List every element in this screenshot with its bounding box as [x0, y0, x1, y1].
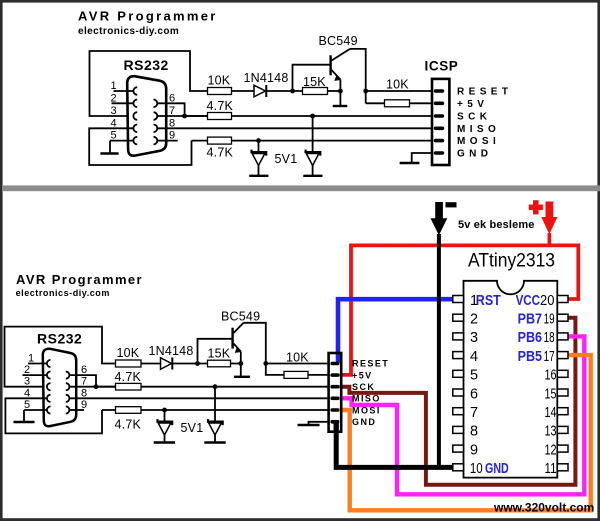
J3 pin 6 contact arc — [66, 372, 70, 379]
svg-text:7: 7 — [470, 405, 478, 421]
svg-text:17: 17 — [544, 349, 555, 365]
resistor R10 4.7K (MOSI bottom) — [116, 407, 142, 414]
svg-text:8: 8 — [81, 387, 87, 399]
U1 pin 20 stub — [557, 296, 568, 303]
J4 pin 3 pad — [330, 385, 339, 389]
J3 pin 7 contact arc — [66, 383, 70, 390]
IC U1 ATtiny2313 body — [464, 281, 558, 478]
svg-text:MOSI: MOSI — [352, 405, 381, 415]
svg-text:3: 3 — [24, 376, 30, 388]
svg-text:3: 3 — [470, 330, 478, 346]
svg-text:19: 19 — [544, 312, 555, 328]
supply red arrow (+) — [541, 202, 557, 248]
J1 pin 5 contact arc — [133, 137, 137, 145]
J2 pin 5 pad — [434, 139, 444, 143]
J4 pin 6 pad (GND tee) — [330, 420, 339, 433]
svg-text:BC549: BC549 — [319, 34, 358, 48]
svg-text:5: 5 — [111, 130, 117, 142]
wire red +5V feed — [340, 245, 579, 375]
J3 pin 1 contact arc — [47, 360, 51, 367]
J3 pin 3 contact arc — [47, 383, 51, 390]
ground at J1 pin 5 — [100, 141, 118, 154]
svg-text:MISO: MISO — [352, 394, 381, 404]
zener D5 5V1 — [154, 410, 175, 443]
svg-text:PB7: PB7 — [518, 312, 542, 328]
diode D4 1N4148 — [161, 358, 173, 370]
node emitter/R2 junction — [338, 89, 343, 94]
wire R3 to ICSP +5V — [410, 102, 432, 104]
J1 pin 7 line — [157, 115, 208, 117]
svg-text:11: 11 — [545, 461, 557, 477]
svg-text:4.7K: 4.7K — [115, 370, 142, 384]
svg-text:3: 3 — [111, 105, 117, 117]
svg-text:9: 9 — [470, 442, 478, 458]
U1 pin 6 stub — [453, 389, 464, 396]
U1 pin 15 stub — [557, 389, 568, 396]
svg-text:20: 20 — [540, 293, 554, 309]
J3 pin 2 line — [23, 374, 48, 376]
svg-text:AVR Programmer: AVR Programmer — [78, 9, 218, 24]
resistor R4 4.7K (SCK) — [208, 113, 232, 120]
svg-text:4.7K: 4.7K — [207, 146, 234, 160]
node B (collector/RESET junction) — [363, 89, 368, 94]
svg-text:2: 2 — [111, 92, 117, 104]
wire Q1 emitter down to ground — [339, 80, 341, 107]
svg-text:electronics-diy.com: electronics-diy.com — [16, 288, 110, 298]
diode D1 1N4148 — [254, 85, 266, 97]
J1 pin 2 line — [112, 102, 135, 104]
svg-text:+5V: +5V — [457, 99, 488, 110]
svg-text:5: 5 — [24, 399, 30, 411]
svg-text:1N4148: 1N4148 — [149, 344, 194, 358]
svg-text:15K: 15K — [303, 75, 326, 89]
svg-text:6: 6 — [169, 92, 175, 104]
svg-text:1N4148: 1N4148 — [244, 71, 289, 85]
svg-text:16: 16 — [545, 368, 557, 384]
svg-text:GND: GND — [352, 417, 376, 427]
wire: DB9 pin3 TxD loop (left, top, right down to 10K row) — [90, 51, 208, 116]
U1 pin 7 stub — [453, 408, 464, 415]
J3 pin 6 line + down to pin7 row — [69, 375, 96, 387]
J1 pin 9 line stub — [157, 140, 178, 142]
svg-text:5: 5 — [470, 368, 478, 384]
J3 pin 4 contact arc — [47, 395, 51, 402]
svg-text:10K: 10K — [286, 351, 309, 365]
J3 pin 7 line — [69, 386, 116, 388]
J1 pin 1 line — [114, 90, 135, 92]
J1 pin 1 contact arc — [133, 87, 137, 95]
node zener D5 tap on MOSI row — [162, 408, 167, 413]
wire Q2 emitter down to ground — [240, 352, 242, 377]
svg-text:4: 4 — [470, 349, 478, 365]
label minus sign — [446, 202, 457, 207]
J1 pin 2 contact arc — [133, 100, 137, 108]
J2 pin 3 pad — [434, 114, 444, 118]
zener D2 5V1 — [249, 141, 268, 176]
svg-text:VCC: VCC — [516, 293, 541, 309]
U1 pin 2 stub — [453, 314, 464, 321]
svg-text:GND: GND — [457, 149, 492, 160]
node pins 6-7 junction (bottom) — [94, 384, 99, 389]
svg-text:MISO: MISO — [457, 124, 500, 135]
connector J4 ICSP box (bottom) — [329, 353, 342, 432]
J3 pin 2 contact arc — [47, 372, 51, 379]
J4 pin 5 pad — [330, 408, 339, 412]
node pins 6-7 junction — [182, 114, 187, 119]
ground at Q2 emitter — [234, 376, 250, 378]
ground at Q1 emitter — [333, 105, 348, 107]
svg-text:PB6: PB6 — [518, 330, 542, 346]
wire node D down to R8 pull-up — [266, 364, 284, 375]
ground at J3 pin 5 — [14, 410, 35, 422]
J1 pin 7 contact arc — [154, 112, 158, 120]
connector J1 DB9 shell (top) — [127, 76, 166, 156]
svg-text:5V1: 5V1 — [275, 152, 298, 166]
U1 pin 17 stub — [557, 352, 568, 359]
wire D1 to node A — [266, 90, 302, 92]
svg-text:9: 9 — [169, 130, 175, 142]
svg-text:4: 4 — [24, 387, 30, 399]
J3 pin 8 contact arc — [66, 395, 70, 402]
J1 pin 5 line — [110, 140, 134, 142]
wire node B to ICSP RESET — [366, 90, 431, 92]
svg-text:electronics-diy.com: electronics-diy.com — [78, 26, 179, 37]
wire R8 to ICSP +5V — [308, 374, 328, 376]
svg-text:4.7K: 4.7K — [115, 418, 142, 432]
node A (diode/base junction) — [290, 89, 295, 94]
svg-text:8: 8 — [470, 424, 478, 440]
resistor R1 10K (top TxD) — [208, 88, 232, 95]
node zener D2 tap on MOSI row — [256, 138, 261, 143]
U1 pin 1 stub — [453, 296, 464, 303]
wire MOSI row from loop through R5 to ICSP — [192, 140, 432, 142]
J2 pin 4 pad — [434, 127, 444, 131]
svg-text:6: 6 — [81, 364, 87, 376]
svg-text:AVR Programmer: AVR Programmer — [16, 272, 143, 287]
svg-text:1: 1 — [111, 80, 117, 92]
svg-text:4: 4 — [111, 117, 117, 129]
resistor R5 4.7K (MOSI) — [208, 137, 232, 144]
wire black GND to pin10 — [336, 422, 453, 467]
resistor R8 10K (bottom pull-up) — [284, 371, 308, 378]
resistor R2 15K (base-emitter) — [303, 88, 328, 95]
U1 pin 13 stub — [557, 426, 568, 433]
svg-text:10K: 10K — [208, 74, 231, 88]
svg-text:www.320volt.com: www.320volt.com — [493, 501, 594, 515]
svg-text:+5V: +5V — [352, 370, 373, 380]
svg-text:SCK: SCK — [352, 382, 375, 392]
wire SCK row (bottom) — [96, 386, 328, 388]
J2 pin 2 pad — [434, 102, 444, 106]
U1 pin 16 stub — [557, 370, 568, 377]
J1 pin 8 contact arc — [154, 125, 158, 133]
svg-text:15: 15 — [545, 386, 557, 402]
connector J3 DB9 shell (bottom) — [43, 349, 76, 427]
svg-text:6: 6 — [470, 386, 478, 402]
zener D3 5V1 — [303, 116, 322, 176]
svg-text:13: 13 — [545, 424, 557, 440]
J4 pin 4 pad — [330, 397, 339, 401]
node zener D6 tap on SCK row — [213, 384, 218, 389]
svg-text:18: 18 — [544, 330, 555, 346]
resistor R7 15K (bottom) — [208, 360, 231, 367]
zener D6 5V1 — [204, 387, 225, 443]
J1 pin 4 line (to lower loop) — [89, 128, 191, 165]
wire node B down to R3 pull-up — [365, 91, 367, 103]
wire R1 to D1 — [232, 90, 255, 92]
U1 pin 3 stub — [453, 333, 464, 340]
wire J2 GND to ground — [412, 153, 432, 163]
node zener D3 tap on SCK row — [310, 114, 315, 119]
J1 pin 6 line + down to pin7 row — [157, 103, 185, 116]
transistor Q1 BC549 (top) — [331, 49, 350, 81]
U1 pin 14 stub — [557, 408, 568, 415]
node C (diode/base junction bottom) — [195, 361, 200, 366]
resistor R9 4.7K (SCK bottom) — [116, 383, 142, 390]
svg-text:RS232: RS232 — [37, 331, 82, 347]
J4 pin 1 pad — [330, 362, 339, 366]
wire node A up to base — [293, 65, 330, 91]
ground at J2 GND — [400, 162, 420, 164]
wire magenta MISO to PB6 — [340, 336, 585, 494]
wire: DB9 pin3 TxD loop (bottom section) — [5, 327, 116, 387]
U1 pin 8 stub — [453, 426, 464, 433]
J3 pin 5 line — [24, 409, 48, 411]
J2 pin 1 pad — [434, 89, 444, 93]
J1 pin 6 contact arc — [154, 100, 158, 108]
svg-text:SCK: SCK — [457, 112, 491, 123]
svg-text:14: 14 — [545, 405, 557, 421]
svg-text:7: 7 — [81, 376, 87, 388]
U1 pin 4 stub — [453, 352, 464, 359]
J3 pin 9 line stub — [69, 409, 84, 411]
wire MOSI row (bottom) — [102, 409, 328, 411]
svg-text:RESET: RESET — [352, 359, 389, 369]
J3 pin 4 line (to lower loop) — [5, 398, 102, 433]
svg-text:2: 2 — [470, 312, 478, 328]
svg-text:10K: 10K — [386, 78, 409, 92]
connector J2 ICSP box (top) — [432, 79, 449, 165]
svg-text:BC549: BC549 — [221, 310, 260, 324]
wire blue RESET to RST — [338, 299, 453, 363]
wire SCK row: junction to ICSP — [185, 115, 431, 117]
J3 pin 1 line — [28, 363, 48, 365]
wire to R3 — [366, 102, 385, 104]
J1 pin 4 contact arc — [133, 125, 137, 133]
svg-text:ATtiny2313: ATtiny2313 — [468, 251, 555, 272]
svg-text:GND: GND — [485, 461, 509, 477]
J1 pin 3 contact arc — [133, 112, 137, 120]
transistor Q2 BC549 (bottom) — [233, 323, 244, 353]
wire R6 to D4 — [141, 363, 161, 365]
U1 pin 11 stub — [557, 464, 568, 471]
U1 pin 9 stub — [453, 445, 464, 452]
svg-text:RST: RST — [476, 293, 501, 309]
resistor R6 10K (bottom TxD) — [116, 360, 142, 367]
svg-text:2: 2 — [24, 364, 30, 376]
svg-text:ICSP: ICSP — [425, 59, 459, 74]
svg-text:RS232: RS232 — [124, 57, 169, 73]
svg-text:8: 8 — [169, 117, 175, 129]
wire D4 to node C — [172, 363, 207, 365]
J3 pin 5 contact arc — [47, 406, 51, 413]
wire R7 to emitter node — [231, 363, 241, 365]
U1 pin 10 stub — [453, 464, 464, 471]
svg-text:15K: 15K — [208, 347, 231, 361]
J3 pin 8 line (MISO long wire) — [69, 397, 328, 399]
wire R2 to emitter node — [328, 90, 341, 92]
U1 pin 5 stub — [453, 370, 464, 377]
svg-text:4.7K: 4.7K — [207, 99, 234, 113]
svg-text:RESET: RESET — [457, 87, 512, 98]
U1 pin 18 stub — [557, 333, 568, 340]
svg-text:PB5: PB5 — [518, 349, 542, 365]
wire orange MOSI to PB5 — [340, 355, 591, 510]
wire Q2 collector to node D — [244, 323, 266, 364]
J1 pin 8 line (MISO long wire) — [157, 127, 431, 129]
wire maroon SCK to PB7 — [340, 318, 576, 485]
svg-text:10K: 10K — [117, 346, 140, 360]
svg-text:10: 10 — [470, 461, 483, 477]
svg-text:1: 1 — [28, 353, 34, 365]
node emitter/R7 junction — [238, 361, 243, 366]
J3 pin 9 contact arc — [66, 406, 70, 413]
J4 pin 2 pad — [330, 373, 339, 377]
resistor R3 10K (pull-up) — [385, 100, 410, 107]
svg-text:9: 9 — [81, 399, 87, 411]
svg-text:7: 7 — [169, 105, 175, 117]
U1 pin 19 stub — [557, 314, 568, 321]
J2 pin 6 pad — [434, 151, 444, 155]
svg-text:5v ek besleme: 5v ek besleme — [458, 219, 535, 231]
node D (collector/RESET junction bottom) — [263, 361, 268, 366]
svg-text:12: 12 — [545, 442, 557, 458]
U1 pin 12 stub — [557, 445, 568, 452]
supply black arrow (-) — [431, 202, 448, 470]
svg-text:MOSI: MOSI — [457, 136, 500, 147]
wire J4 GND stub to ground — [309, 422, 329, 425]
J1 pin 9 contact arc — [154, 137, 158, 145]
label plus sign — [529, 200, 543, 214]
wire Q1 collector to node B — [350, 49, 366, 91]
svg-text:5V1: 5V1 — [181, 421, 204, 435]
wire node C up to base — [198, 339, 232, 364]
divider band — [2, 185, 600, 191]
wire node D to ICSP RESET row — [266, 363, 328, 365]
ground at J4 GND — [298, 424, 320, 426]
